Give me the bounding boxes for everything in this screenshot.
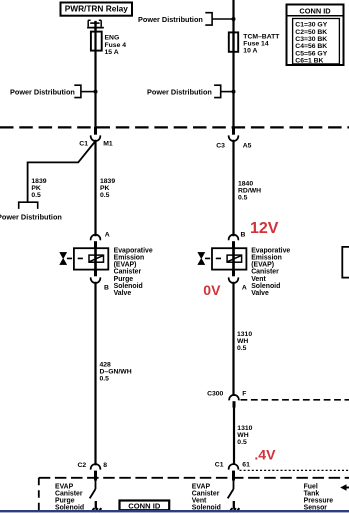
svg-text:Canister: Canister <box>55 490 83 497</box>
connector C300 pin F <box>207 391 246 408</box>
svg-text:PWR/TRN Relay: PWR/TRN Relay <box>65 4 129 14</box>
off-page reference Power Distribution (mid right) <box>147 85 236 97</box>
svg-text:Fuse 4: Fuse 4 <box>105 42 127 49</box>
label Fuel Tank Pressure Sensor <box>304 483 334 511</box>
dashed harness line right of C300 <box>241 399 349 401</box>
wire: connector C1 down to terminal A <box>94 140 96 236</box>
dotted line right of C1 <box>240 469 349 471</box>
label EVAP Canister Purge Solenoid <box>55 483 84 511</box>
svg-text:C4=56 BK: C4=56 BK <box>295 43 327 50</box>
svg-text:D–GN/WH: D–GN/WH <box>100 369 132 376</box>
svg-text:WH: WH <box>237 432 248 439</box>
wire: terminal A down to connector C300 <box>232 282 234 396</box>
svg-text:0V: 0V <box>203 282 221 298</box>
svg-text:C5=56 GY: C5=56 GY <box>295 50 327 57</box>
svg-text:F: F <box>242 391 246 398</box>
mechanical link dashes <box>67 257 89 259</box>
svg-text:Vent: Vent <box>251 276 266 283</box>
svg-text:Vent: Vent <box>192 497 207 504</box>
valve bowtie <box>198 252 205 264</box>
svg-text:8: 8 <box>103 462 107 469</box>
svg-text:Canister: Canister <box>192 490 220 497</box>
svg-text:(EVAP): (EVAP) <box>251 262 274 269</box>
wire: connector C3 down to terminal B <box>232 140 234 236</box>
svg-text:Solenoid: Solenoid <box>251 283 280 290</box>
svg-text:Fuse 14: Fuse 14 <box>243 40 269 47</box>
svg-text:WH: WH <box>237 338 248 345</box>
wire label 1310 WH 0.5 (below C300) <box>237 425 252 446</box>
svg-text:Purge: Purge <box>55 497 75 504</box>
mechanical link dashes <box>205 257 227 259</box>
svg-text:0.5: 0.5 <box>31 192 41 199</box>
svg-text:15 A: 15 A <box>105 49 119 56</box>
svg-text:TCM–BATT: TCM–BATT <box>243 33 280 40</box>
svg-text:C2: C2 <box>78 462 87 469</box>
svg-text:1310: 1310 <box>237 331 252 338</box>
svg-text:C3: C3 <box>216 143 225 150</box>
svg-text:Tank: Tank <box>304 490 320 497</box>
dashed box left edge (EVAP purge solenoid box) <box>38 478 40 513</box>
wire: terminal B down to connector C2 <box>94 282 96 466</box>
svg-text:Evaporative: Evaporative <box>251 248 290 255</box>
svg-text:Emission: Emission <box>114 255 145 262</box>
svg-text:B: B <box>104 284 109 291</box>
svg-text:1840: 1840 <box>238 180 253 187</box>
wire: left wire fuse to connector C1 <box>94 50 96 134</box>
svg-text:ENG: ENG <box>105 35 120 42</box>
svg-text:Power Distribution: Power Distribution <box>10 88 75 97</box>
bottom boundary dashed line <box>39 477 349 479</box>
svg-text:Canister: Canister <box>114 269 142 276</box>
valve bowtie <box>60 252 67 264</box>
label EVAP Canister Vent Solenoid <box>192 483 221 511</box>
svg-text:1839: 1839 <box>31 178 46 185</box>
svg-text:A: A <box>105 231 110 238</box>
svg-text:RD/WH: RD/WH <box>238 187 261 194</box>
fuse ENG Fuse 4 15 A <box>91 31 126 56</box>
svg-text:EVAP: EVAP <box>55 483 74 490</box>
wire label 1839 PK 0.5 (main) <box>100 178 115 199</box>
svg-text:0.5: 0.5 <box>237 345 247 352</box>
fuse TCM-BATT Fuse 14 10 A <box>229 32 280 55</box>
off-page reference Power Distribution (top middle) <box>138 13 236 25</box>
svg-text:Power Distribution: Power Distribution <box>0 212 62 221</box>
svg-text:A5: A5 <box>243 143 252 150</box>
svg-text:Valve: Valve <box>251 290 269 297</box>
wire label 428 D-GN/WH 0.5 <box>100 362 132 383</box>
wire: right wire from top edge <box>232 0 234 135</box>
svg-text:(EVAP): (EVAP) <box>114 262 137 269</box>
wire: C300 down to connector C1 <box>233 406 235 465</box>
blue bottom border line <box>0 510 349 512</box>
svg-text:PK: PK <box>31 185 41 192</box>
coil <box>227 255 242 262</box>
CONN ID table (top right) <box>287 5 344 66</box>
wire label 1840 RD/WH 0.5 <box>238 180 261 201</box>
switch blade (purge solenoid internal) <box>90 480 96 499</box>
svg-text:0.5: 0.5 <box>237 439 247 446</box>
arrow (to fuel tank pressure sensor) <box>340 484 349 490</box>
svg-text:CONN ID: CONN ID <box>128 501 161 510</box>
svg-text:12V: 12V <box>250 220 279 237</box>
terminal A arc (purge solenoid) <box>91 231 110 249</box>
svg-text:C1: C1 <box>79 141 88 148</box>
svg-text:Power Distribution: Power Distribution <box>147 88 212 97</box>
svg-text:Canister: Canister <box>251 269 279 276</box>
CONN ID box (bottom) <box>120 501 170 511</box>
EVAP canister purge solenoid valve <box>60 248 153 297</box>
svg-text:M1: M1 <box>103 141 113 148</box>
svg-text:0.5: 0.5 <box>100 376 110 383</box>
svg-text:B: B <box>241 231 246 238</box>
connector C2 pin 8 <box>78 462 108 481</box>
off-page reference Power Distribution (left) <box>10 85 98 97</box>
partial component box (far right) <box>342 247 349 278</box>
svg-text:Pressure: Pressure <box>304 497 334 504</box>
ground (left) <box>92 501 102 512</box>
svg-text:C1: C1 <box>215 462 224 469</box>
svg-text:0.5: 0.5 <box>100 192 110 199</box>
terminal B arc <box>91 277 101 283</box>
svg-text:61: 61 <box>242 462 250 469</box>
terminal A arc <box>229 277 239 283</box>
svg-text:C6=1 BK: C6=1 BK <box>295 58 323 65</box>
svg-text:0.5: 0.5 <box>238 194 248 201</box>
svg-text:428: 428 <box>100 362 112 369</box>
switch blade (vent solenoid internal) <box>228 480 234 499</box>
connector C3 / A5 <box>216 127 251 150</box>
svg-text:Evaporative: Evaporative <box>114 248 153 255</box>
EVAP canister vent solenoid valve <box>198 248 291 297</box>
svg-text:C2=50 BK: C2=50 BK <box>295 29 327 36</box>
svg-text:Valve: Valve <box>114 290 132 297</box>
svg-text:Emission: Emission <box>251 255 282 262</box>
svg-text:C3=30 BK: C3=30 BK <box>295 36 327 43</box>
relay PWR/TRN Relay <box>61 3 133 16</box>
fuse holder terminal (relay socket) <box>87 20 104 31</box>
svg-text:Fuel: Fuel <box>304 483 318 490</box>
svg-text:10 A: 10 A <box>243 47 257 54</box>
svg-text:C1=30 GY: C1=30 GY <box>295 22 327 29</box>
svg-text:Power Distribution: Power Distribution <box>138 15 203 24</box>
svg-text:1839: 1839 <box>100 178 115 185</box>
terminal B arc (vent solenoid) <box>229 231 246 249</box>
off-page bracket <box>19 202 38 209</box>
connector C1 pin 61 <box>215 462 250 481</box>
svg-text:C300: C300 <box>207 391 223 398</box>
svg-text:A: A <box>242 284 247 291</box>
wire branch 1839 PK 0.5 to Power Distribution <box>0 141 96 221</box>
ground (right) <box>230 501 240 512</box>
svg-text:CONN ID: CONN ID <box>299 6 331 15</box>
wire label 1310 WH 0.5 (above C300) <box>237 331 252 352</box>
svg-text:Solenoid: Solenoid <box>114 283 143 290</box>
svg-text:.4V: .4V <box>254 447 276 463</box>
svg-text:1310: 1310 <box>237 425 252 432</box>
svg-text:Purge: Purge <box>114 276 134 283</box>
dashed boundary line (PCM box edge) <box>0 126 349 128</box>
svg-text:PK: PK <box>100 185 110 192</box>
connector C1 / M1 <box>79 127 113 148</box>
coil <box>89 255 104 262</box>
svg-text:EVAP: EVAP <box>192 483 211 490</box>
